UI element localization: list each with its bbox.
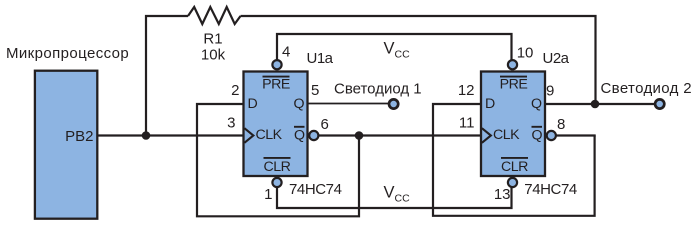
pin number 12 (D U2a)	[458, 82, 475, 99]
svg-text:CC: CC	[395, 193, 411, 205]
label Q U1a	[294, 96, 305, 112]
D flip-flop U2a body	[481, 72, 545, 177]
svg-text:2: 2	[231, 82, 239, 99]
svg-text:3: 3	[227, 115, 235, 132]
label Vcc (top)	[384, 40, 411, 61]
label Светодиод 2	[601, 80, 692, 97]
svg-text:PRE: PRE	[262, 77, 290, 93]
pin label PB2	[65, 128, 93, 145]
resistor R1	[188, 7, 241, 24]
svg-text:D: D	[485, 96, 495, 112]
pin number 6 (Q-bar U1a)	[321, 116, 329, 133]
pin 1 bubble (CLR U1a)	[272, 178, 281, 187]
svg-text:74HC74: 74HC74	[524, 181, 577, 198]
label Микропроцессор	[6, 45, 129, 62]
svg-text:9: 9	[546, 83, 554, 100]
pin 4 bubble (PRE U1a)	[272, 60, 281, 69]
pin number 11 (CLK U2a)	[459, 115, 475, 132]
pin number 13 (CLR U2a)	[494, 186, 511, 203]
pin number 8 (Q-bar U2a)	[557, 116, 565, 133]
wire junction up to resistor R1	[146, 16, 188, 136]
pin number 3 (CLK U1a)	[227, 115, 235, 132]
svg-text:CLR: CLR	[501, 159, 528, 175]
label CLK U1a	[256, 127, 283, 143]
svg-text:D: D	[248, 96, 258, 112]
svg-text:Светодиод 1: Светодиод 1	[334, 81, 422, 98]
label Vcc (bottom)	[384, 184, 411, 205]
D flip-flop U1a body	[244, 72, 308, 177]
svg-text:11: 11	[459, 115, 475, 132]
wire D1 feedback loop (D to Q-bar junction)	[197, 104, 359, 216]
svg-text:V: V	[384, 40, 395, 58]
pin number 5 (Q U1a)	[311, 82, 319, 99]
microprocessor block	[35, 71, 97, 219]
svg-text:13: 13	[494, 186, 511, 203]
label R1	[203, 31, 222, 48]
svg-text:CLK: CLK	[256, 127, 283, 143]
label 74HC74 (U2a)	[524, 181, 577, 198]
label 74HC74 (U1a)	[289, 181, 342, 198]
label CLR U2a	[501, 158, 528, 175]
svg-text:10k: 10k	[201, 47, 226, 64]
pin number 2 (D U1a)	[231, 82, 239, 99]
svg-text:1: 1	[264, 186, 272, 203]
label CLR U1a	[264, 158, 291, 175]
svg-text:5: 5	[311, 82, 319, 99]
wire CLR pins to Vcc (bottom rail)	[277, 187, 512, 208]
label Q U2a	[531, 96, 542, 112]
pin number 10 (PRE U2a)	[517, 45, 534, 62]
wire Q-bar2 to feedback corner	[556, 134, 596, 136]
LED2 circle	[655, 99, 664, 108]
label Q-bar U2a	[532, 127, 543, 144]
CLK triangle U2a	[482, 128, 491, 143]
LED1 circle	[389, 99, 398, 108]
svg-text:U2a: U2a	[543, 50, 570, 67]
svg-text:PRE: PRE	[500, 77, 528, 93]
wire R1 to Q2 junction (top rail)	[241, 16, 596, 101]
svg-text:CC: CC	[395, 49, 411, 61]
label PRE U2a	[500, 77, 528, 93]
svg-text:10: 10	[517, 45, 534, 62]
wire Q2 to LED2	[545, 103, 655, 105]
label D U1a	[248, 96, 258, 112]
label 10k	[201, 47, 226, 64]
svg-text:Q: Q	[531, 96, 542, 112]
wire D2 feedback loop (D2 down and along bottom)	[433, 104, 595, 216]
svg-text:R1: R1	[203, 31, 222, 48]
label D U2a	[485, 96, 495, 112]
wire PB2 to CLK U1a	[97, 134, 244, 136]
svg-text:Q: Q	[532, 128, 543, 144]
svg-text:U1a: U1a	[307, 50, 334, 67]
CLK triangle U1a	[244, 128, 253, 143]
wire Q-bar1 to CLK U2a	[318, 134, 481, 136]
pin number 4 (PRE U1a)	[282, 44, 290, 61]
svg-text:Q: Q	[294, 128, 305, 144]
label U2a	[543, 50, 570, 67]
pin 13 bubble (CLR U2a)	[508, 178, 517, 187]
pin 10 bubble (PRE U2a)	[508, 60, 517, 69]
svg-text:CLR: CLR	[264, 159, 291, 175]
svg-text:V: V	[384, 184, 395, 202]
pin number 9 (Q U2a)	[546, 83, 554, 100]
pin number 1 (CLR U1a)	[264, 186, 272, 203]
junction node on Q-bar1 wire	[355, 131, 364, 140]
svg-text:Микропроцессор: Микропроцессор	[6, 45, 129, 62]
svg-text:CLK: CLK	[493, 127, 520, 143]
svg-text:Q: Q	[294, 96, 305, 112]
label U1a	[307, 50, 334, 67]
svg-text:Светодиод 2: Светодиод 2	[601, 80, 692, 97]
svg-text:74HC74: 74HC74	[289, 181, 342, 198]
wire PRE pins to Vcc (top rail)	[277, 34, 512, 60]
junction node on Q2 wire	[591, 100, 600, 109]
svg-text:4: 4	[282, 44, 290, 61]
label CLK U2a	[493, 127, 520, 143]
svg-text:12: 12	[458, 82, 475, 99]
pin 6 bubble (Q-bar U1a)	[309, 131, 318, 140]
junction node at PB2 wire	[142, 131, 151, 140]
svg-text:PB2: PB2	[65, 128, 93, 145]
svg-text:6: 6	[321, 116, 329, 133]
label Светодиод 1	[334, 81, 422, 98]
pin 8 bubble (Q-bar U2a)	[547, 131, 556, 140]
label Q-bar U1a	[294, 127, 305, 144]
label PRE U1a	[262, 77, 290, 93]
svg-text:8: 8	[557, 116, 565, 133]
wire Q1 to LED1	[308, 103, 390, 105]
